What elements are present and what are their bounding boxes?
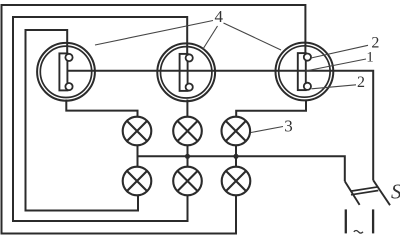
svg-text:S: S xyxy=(391,179,400,203)
svg-text:2: 2 xyxy=(357,74,365,91)
svg-text:4: 4 xyxy=(215,7,224,26)
svg-text:3: 3 xyxy=(284,116,293,135)
svg-text:1: 1 xyxy=(366,50,374,66)
